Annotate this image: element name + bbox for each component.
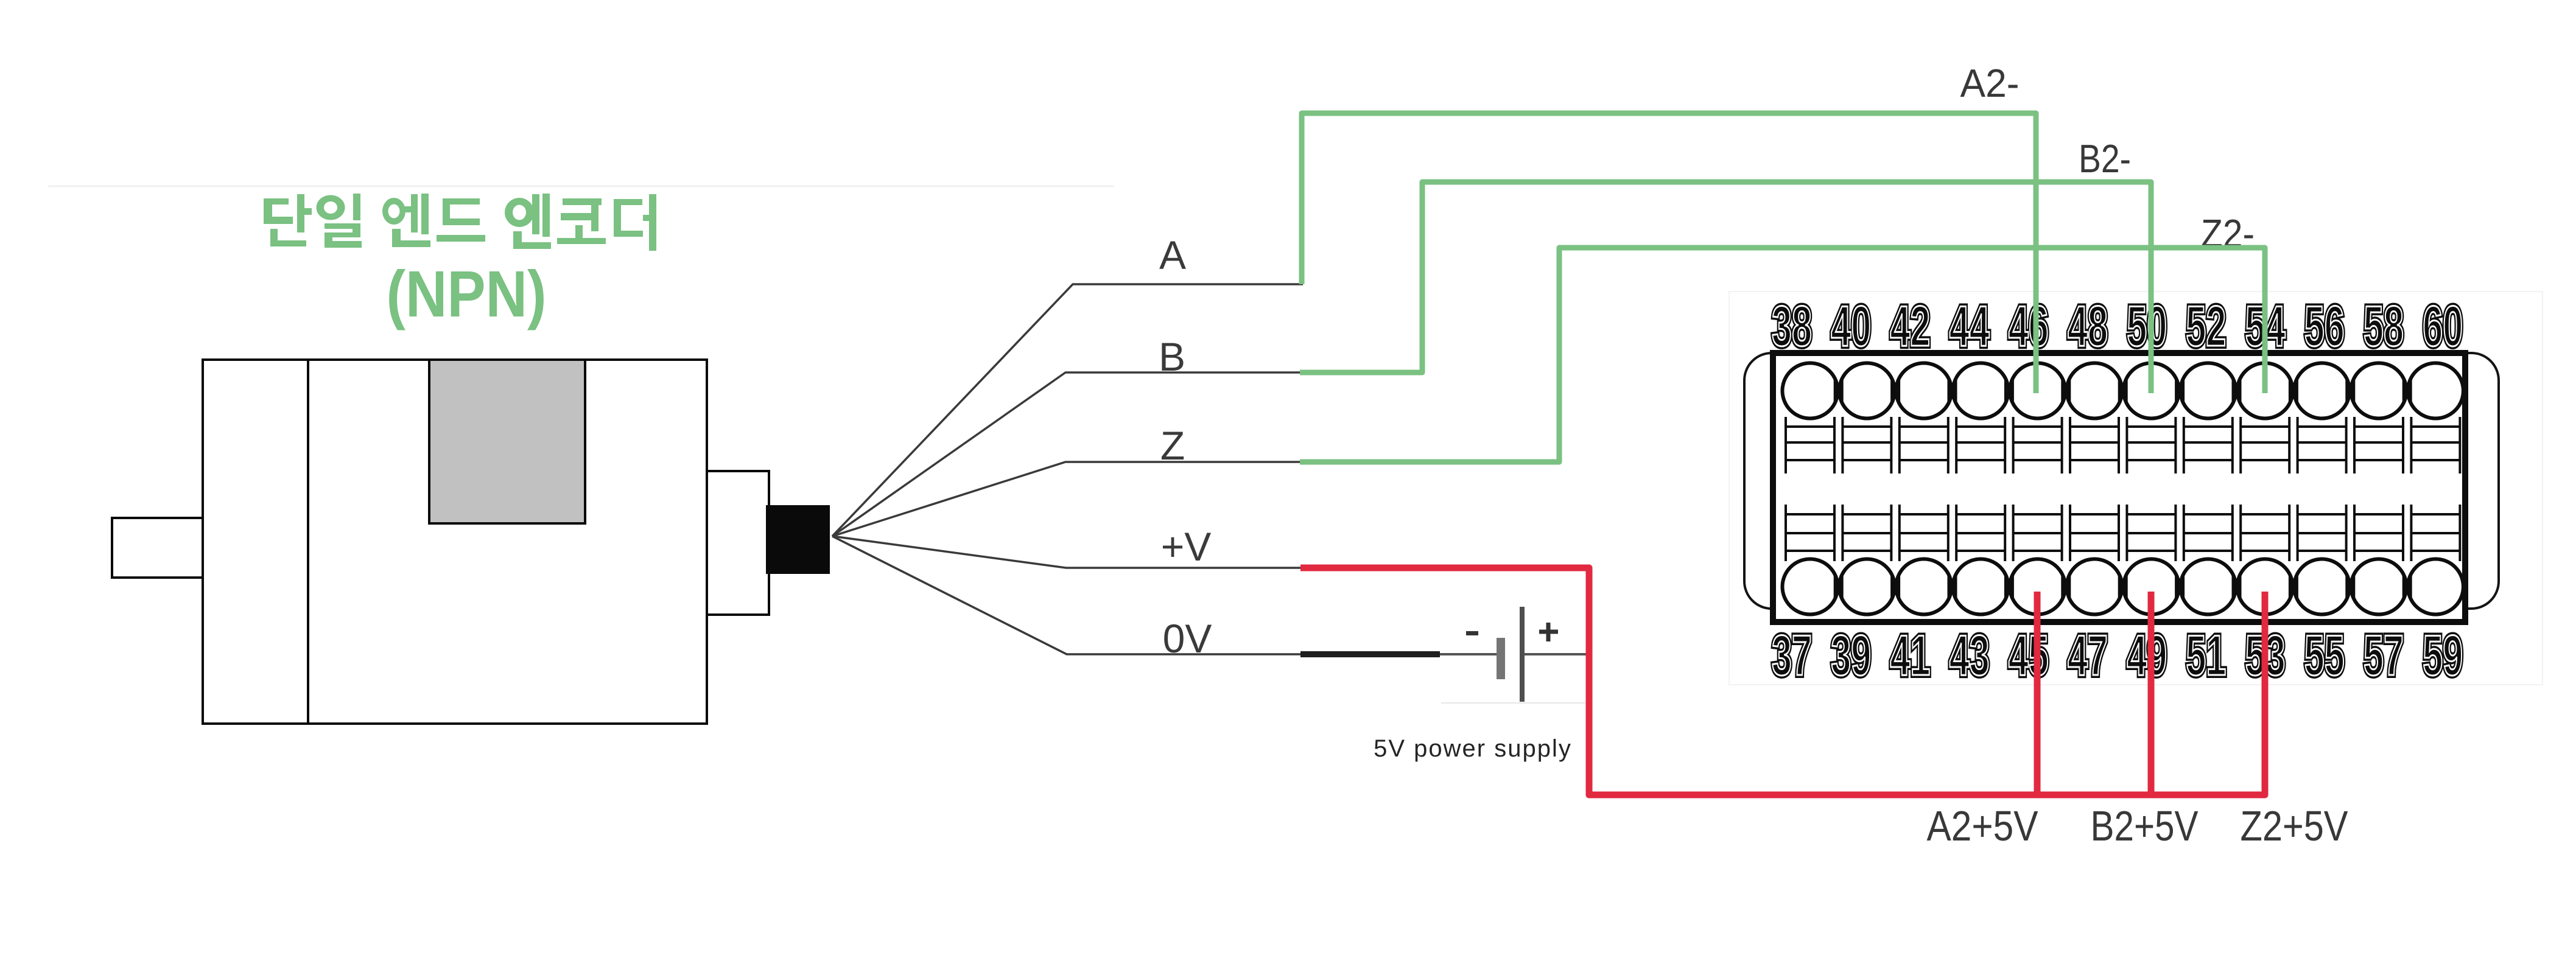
encoder gray block	[429, 360, 585, 523]
encoder body divider line	[307, 360, 309, 724]
svg-text:A2-: A2-	[1960, 61, 2020, 105]
svg-text:(NPN): (NPN)	[387, 257, 547, 330]
svg-text:52: 52	[2186, 294, 2226, 358]
red +V bus wire to pin 53	[1300, 568, 2265, 795]
svg-text:42: 42	[1890, 294, 1930, 358]
svg-text:39: 39	[1831, 623, 1871, 687]
battery positive lead	[1525, 653, 1590, 655]
title syllable 더	[614, 194, 656, 251]
title syllable 일	[317, 195, 345, 220]
terminal bottom row pin circles 37-59	[1783, 559, 2463, 615]
green wire A to pin 46 (A2-)	[1302, 113, 2036, 393]
battery plus sign	[1539, 623, 1558, 641]
svg-text:B2+5V: B2+5V	[2091, 802, 2199, 850]
svg-text:B2-: B2-	[2079, 136, 2131, 181]
svg-text:51: 51	[2186, 623, 2226, 687]
terminal top row pin circles 38-60	[1783, 363, 2463, 419]
0V thick black lead	[1300, 651, 1440, 657]
title syllable 드	[437, 198, 485, 242]
svg-text:A2+5V: A2+5V	[1927, 802, 2038, 850]
encoder shaft	[112, 518, 203, 578]
title syllable 엔 (first)	[382, 198, 405, 225]
svg-text:59: 59	[2423, 623, 2463, 687]
terminal clamp ladder contacts	[1786, 417, 2460, 561]
battery negative lead	[1440, 653, 1497, 655]
svg-text:58: 58	[2364, 294, 2404, 358]
svg-text:45: 45	[2009, 623, 2049, 687]
wire fan-out +V	[832, 536, 1302, 568]
wire fan-out Z	[832, 462, 1301, 536]
svg-text:41: 41	[1890, 623, 1930, 687]
svg-text:Z: Z	[1160, 423, 1185, 468]
svg-text:Z2+5V: Z2+5V	[2241, 802, 2348, 850]
faint battery underline	[1441, 702, 1585, 704]
svg-text:47: 47	[2068, 623, 2108, 687]
svg-text:56: 56	[2304, 294, 2345, 358]
svg-text:43: 43	[1950, 623, 1990, 687]
red stub to pin 49	[2148, 592, 2155, 795]
svg-text:49: 49	[2127, 623, 2167, 687]
svg-text:+V: +V	[1161, 524, 1212, 569]
terminal block outer rounded shell	[1744, 353, 2499, 609]
svg-text:A: A	[1159, 232, 1186, 278]
green wire B to pin 50 (B2-)	[1300, 182, 2151, 393]
wire fan-out A	[832, 284, 1303, 536]
svg-text:46: 46	[2009, 294, 2049, 358]
svg-text:57: 57	[2364, 623, 2404, 687]
title syllable 단	[264, 194, 312, 246]
encoder body	[203, 360, 707, 724]
svg-text:37: 37	[1772, 623, 1812, 687]
svg-text:40: 40	[1831, 294, 1871, 358]
wire fan-out 0V	[832, 536, 1302, 654]
svg-text:44: 44	[1950, 294, 1990, 358]
encoder cable connector (black square)	[766, 505, 830, 574]
title syllable 엔 (second)	[505, 198, 534, 227]
svg-text:B: B	[1159, 334, 1185, 379]
faint divider line	[48, 186, 1114, 187]
svg-text:0V: 0V	[1163, 616, 1212, 661]
battery negative plate	[1497, 638, 1505, 679]
green wire Z to pin 54 (Z2-)	[1300, 248, 2265, 462]
red stub to pin 45	[2034, 592, 2041, 795]
svg-text:48: 48	[2068, 294, 2108, 358]
title syllable 코	[557, 198, 606, 244]
svg-text:5V power supply: 5V power supply	[1374, 735, 1572, 762]
pasted image seam (faint)	[1729, 292, 2543, 685]
battery positive plate	[1520, 607, 1525, 702]
terminal block main body	[1773, 353, 2465, 622]
wire fan-out B	[832, 372, 1301, 536]
svg-text:55: 55	[2304, 623, 2345, 687]
svg-text:60: 60	[2423, 294, 2463, 358]
encoder rear collar	[707, 471, 769, 615]
svg-text:38: 38	[1772, 294, 1812, 358]
circle-to-circle bridge links	[1835, 378, 2411, 599]
battery minus sign	[1466, 631, 1478, 635]
svg-text:50: 50	[2127, 294, 2167, 358]
